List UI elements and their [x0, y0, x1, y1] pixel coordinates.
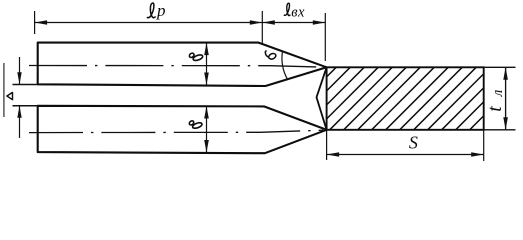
centerline bottom wall — [29, 130, 323, 132]
top wall of tube drill (body outline) — [38, 43, 327, 86]
workpiece core (hatched rectangle) — [249, 55, 523, 141]
dimension S (core length) — [327, 130, 484, 161]
dimension l_vx — [262, 11, 325, 61]
label delta (rotated triangle) — [7, 92, 13, 99]
svg-text:л: л — [490, 89, 506, 97]
svg-text:S: S — [409, 133, 418, 153]
svg-text:р: р — [156, 1, 166, 20]
dimension v (top wall width) — [206, 43, 208, 85]
page-edge mark at left — [3, 63, 5, 117]
label v bottom — [189, 120, 203, 129]
svg-text:вх: вх — [291, 4, 305, 20]
dimension t_l (core thickness) — [484, 67, 516, 130]
label beta — [265, 51, 276, 60]
label l_vx — [284, 3, 305, 20]
V cut face between tips — [317, 67, 327, 130]
bottom wall of tube drill (body outline) — [38, 106, 327, 153]
svg-text:t: t — [484, 106, 506, 112]
angle beta arc — [282, 51, 287, 79]
centerline top wall — [29, 66, 327, 68]
label t_l — [484, 89, 506, 112]
label v top — [189, 52, 204, 61]
label l_p — [147, 1, 166, 20]
dimension delta (gap) — [13, 57, 40, 138]
dimension l_p — [35, 11, 263, 34]
dimension v (bottom wall width) — [206, 106, 208, 153]
